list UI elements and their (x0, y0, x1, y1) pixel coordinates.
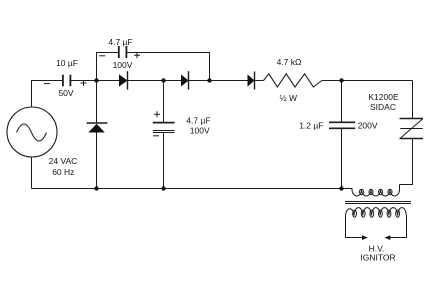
svg-text:½ W: ½ W (280, 93, 297, 103)
capacitor C1 10uF plates (63, 75, 71, 87)
junction node C dot (207, 78, 211, 82)
svg-text:4.7 kΩ: 4.7 kΩ (277, 57, 302, 67)
wire D2 to node C and on to D3 (189, 80, 248, 82)
C3 plus sign (154, 111, 160, 117)
svg-text:SIDAC: SIDAC (370, 102, 396, 112)
resistor R1 4.7k zigzag (264, 74, 322, 87)
transformer core (345, 202, 411, 204)
svg-text:10 µF: 10 µF (56, 58, 78, 68)
svg-text:K1200E: K1200E (368, 92, 399, 102)
junction bottom rail dot 1 (94, 186, 98, 190)
transformer T1 primary winding (342, 185, 400, 190)
C2 plus sign (134, 52, 140, 58)
SIDAC U1 (400, 119, 424, 139)
diode D3 (248, 74, 255, 86)
junction bottom rail dot 2 (161, 186, 165, 190)
spark gap left lead with arrow (346, 216, 363, 238)
svg-text:200V: 200V (358, 120, 378, 130)
capacitor C2 4.7uF plates (119, 46, 127, 58)
wire SIDAC to transformer right lead (400, 139, 413, 185)
C3 minus sign (153, 135, 159, 137)
junction node D dot (339, 78, 343, 82)
wire node A to D1 (97, 80, 120, 82)
svg-text:50V: 50V (58, 88, 73, 98)
wire D1 to node B (128, 80, 182, 82)
svg-text:24 VAC: 24 VAC (49, 156, 78, 166)
C2 minus sign (99, 55, 105, 57)
sine wave inside source (17, 124, 47, 141)
diode D2 (181, 74, 189, 86)
diode D1 (119, 74, 128, 86)
svg-text:100V: 100V (113, 60, 133, 70)
capacitor C3 4.7uF electrolytic vertical (163, 81, 165, 123)
C1 plus sign (81, 80, 87, 86)
spark gap right lead with arrow (390, 216, 407, 238)
svg-text:IGNITOR: IGNITOR (360, 252, 395, 262)
capacitor C4 1.2uF (341, 81, 343, 123)
wire source bottom lead (31, 157, 33, 189)
top branch wire left (97, 53, 119, 81)
bottom rail wire (32, 188, 342, 190)
junction bottom rail dot 3 (339, 186, 343, 190)
wire right edge down to SIDAC (412, 81, 414, 119)
svg-text:60 Hz: 60 Hz (52, 167, 74, 177)
wire resistor to node D to right corner (322, 80, 413, 82)
C1 minus sign (44, 83, 50, 85)
AC source V1 24VAC (7, 107, 57, 157)
svg-text:4.7 µF: 4.7 µF (186, 115, 210, 125)
diode D4 vertical to bottom rail (96, 81, 98, 123)
svg-text:100V: 100V (190, 126, 210, 136)
wire D3 to resistor (255, 80, 264, 82)
transformer secondary winding (346, 208, 407, 216)
svg-text:1.2 µF: 1.2 µF (299, 120, 323, 130)
top branch wire right (127, 53, 210, 81)
svg-text:4.7 µF: 4.7 µF (108, 37, 132, 47)
wire source top lead (32, 81, 63, 108)
junction node B dot (161, 78, 165, 82)
wire C1 to node A (71, 80, 97, 82)
junction node A dot (94, 78, 98, 82)
